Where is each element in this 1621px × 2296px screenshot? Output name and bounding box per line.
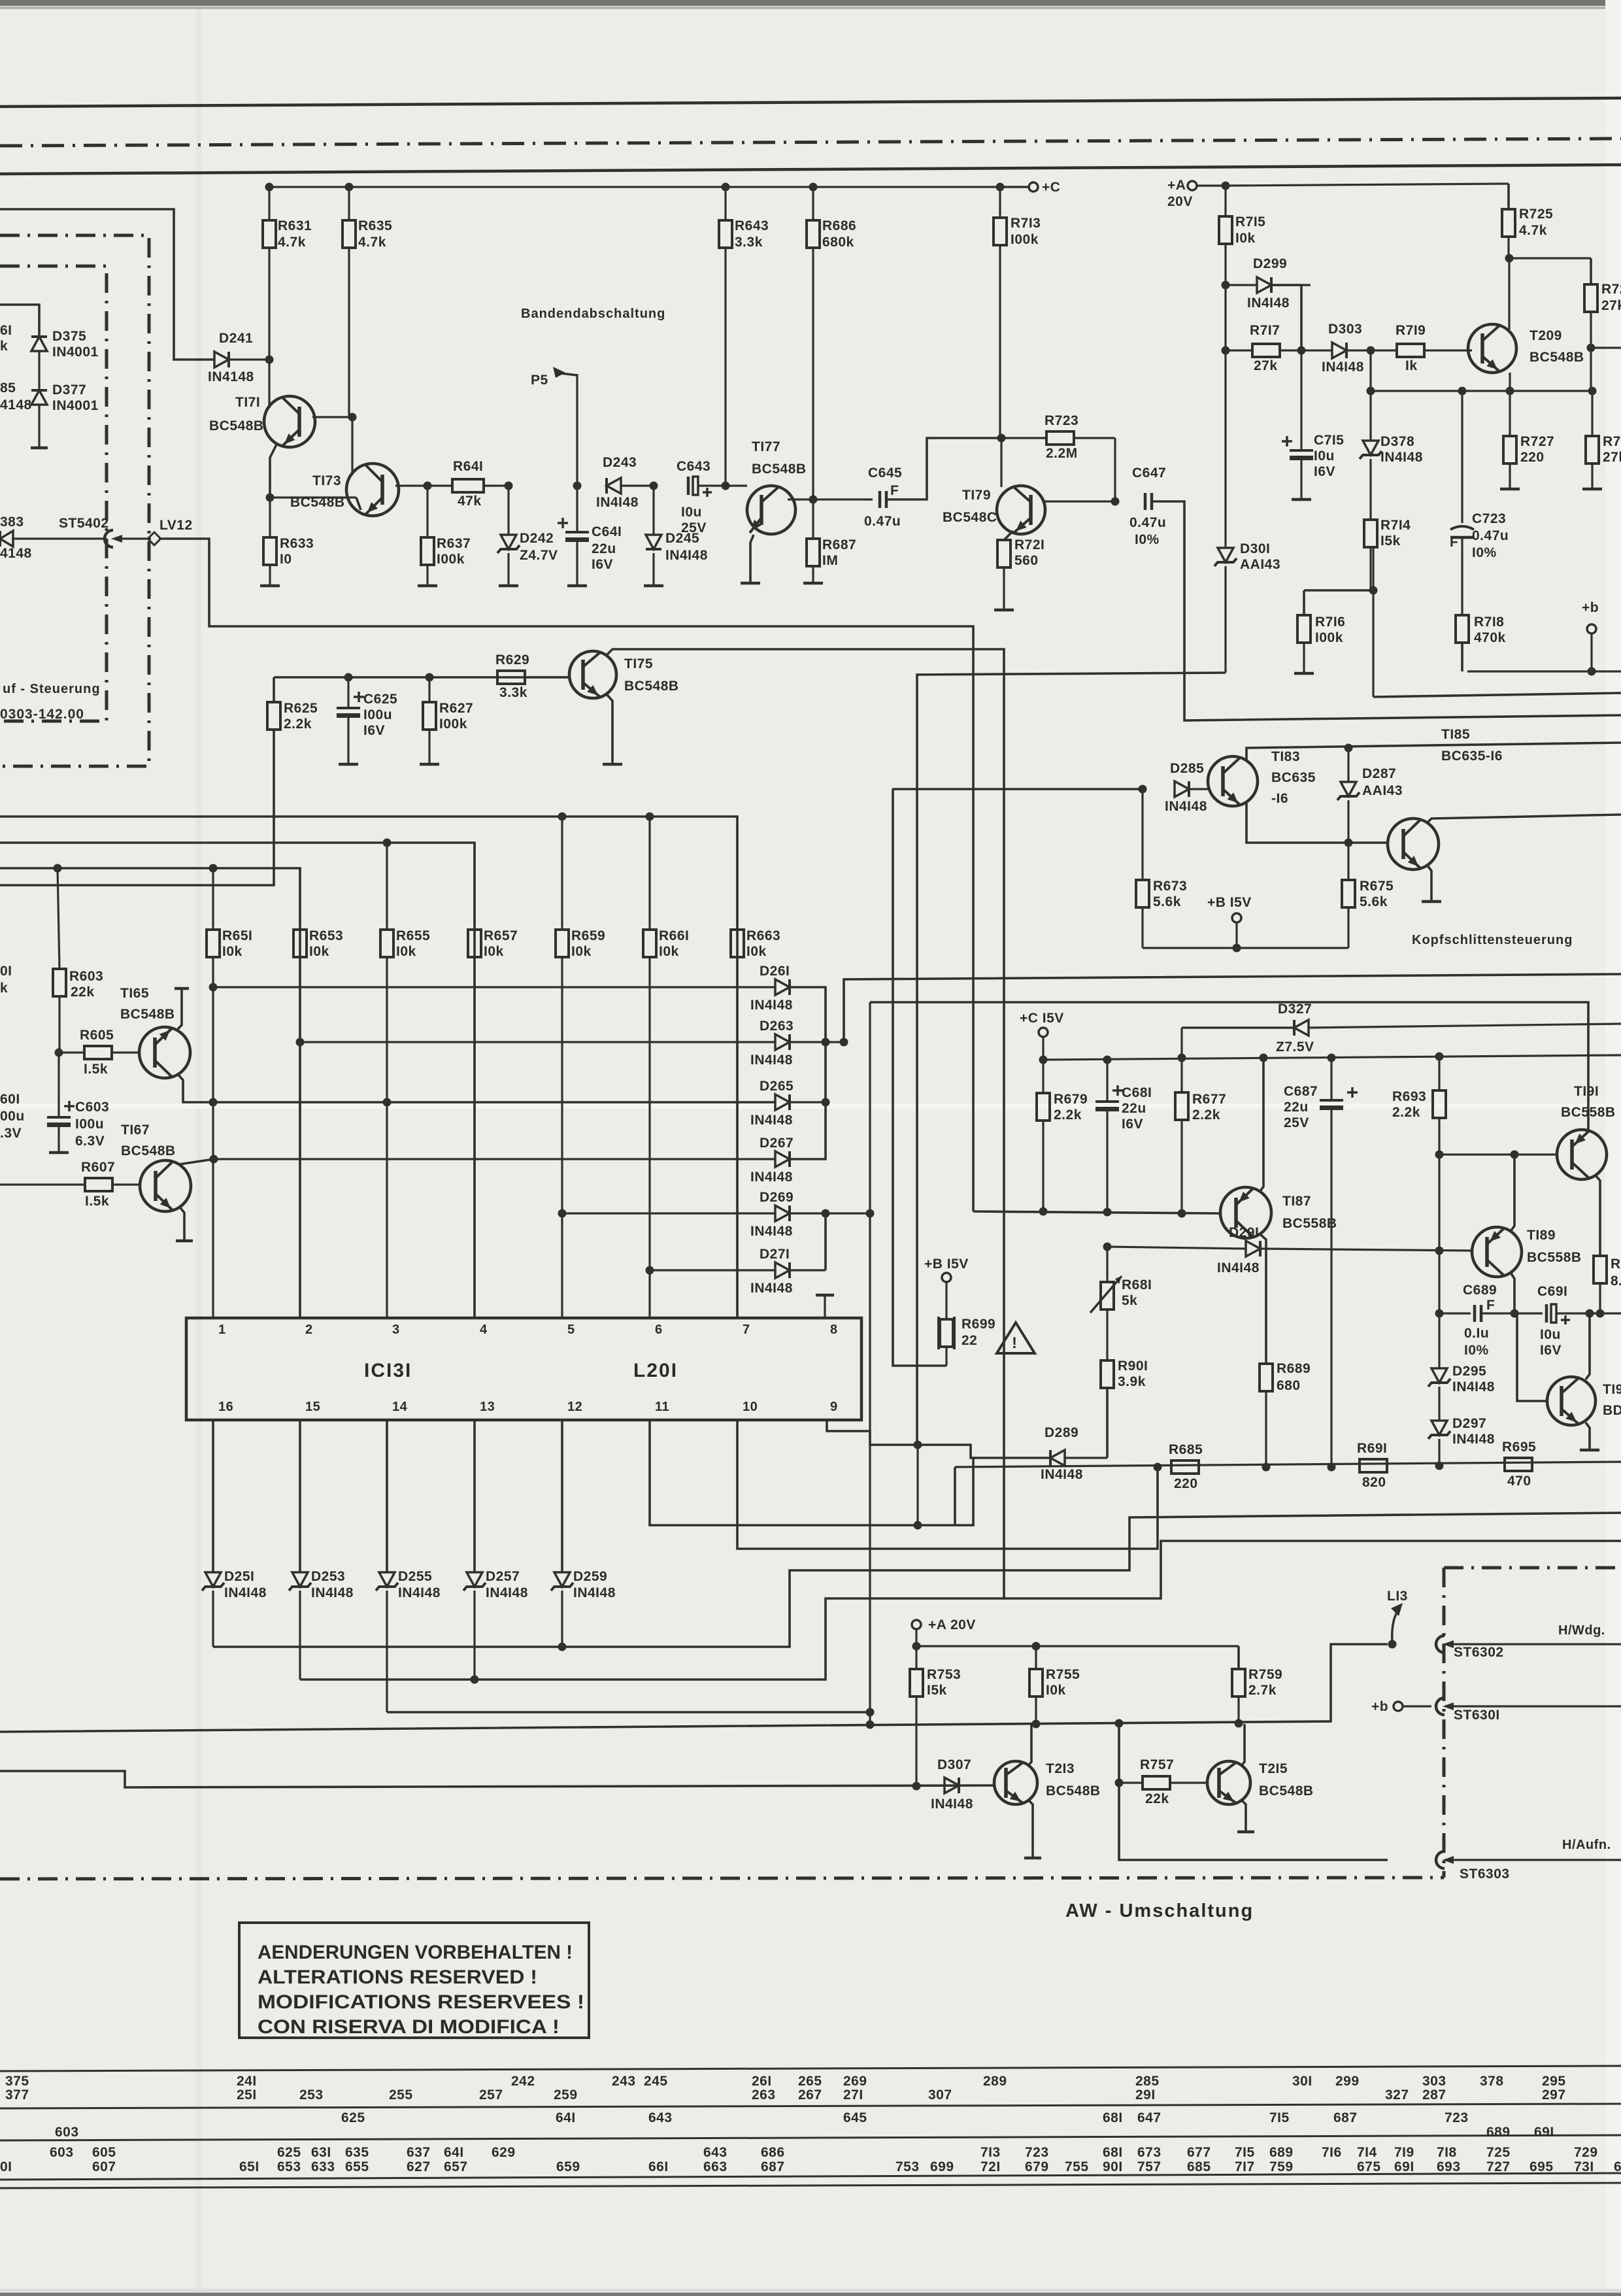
pin15 line [300,1591,1005,1684]
capacitor C625 100u 16V [337,673,397,765]
wire D285 line [892,788,1143,790]
svg-text:R753: R753 [927,1667,961,1682]
svg-text:D242: D242 [520,531,554,546]
svg-text:R7I3: R7I3 [1011,216,1041,231]
diode D297 IN4148 [1428,1387,1495,1467]
svg-text:IN4I48: IN4I48 [486,1585,528,1600]
svg-text:D377: D377 [52,382,86,397]
resistor R631 4.7k [263,187,312,408]
svg-text:D378: D378 [1380,434,1414,449]
bus wire C [0,868,300,1318]
bus C node R651 [209,864,218,873]
svg-text:289: 289 [983,2074,1007,2089]
label cut C601 [0,1092,25,1141]
emitter node row [1371,387,1592,396]
svg-text:R66I: R66I [659,928,689,943]
svg-text:TI9I: TI9I [1574,1084,1599,1099]
svg-text:I00k: I00k [439,717,467,732]
diode D257 IN4148 [463,1420,528,1600]
capacitor C647 0.47u 10% [1129,465,1166,547]
svg-text:686: 686 [761,2145,785,2160]
svg-text:0.47u: 0.47u [1472,528,1509,543]
node D287 base line [1345,839,1353,847]
svg-text:4: 4 [480,1323,488,1337]
left module outer dash-dot border [0,235,149,766]
pin 10 [743,1400,758,1414]
svg-text:680k: 680k [822,235,854,250]
connector ST6302 [1436,1636,1504,1660]
svg-text:2: 2 [305,1323,313,1337]
svg-text:R657: R657 [484,928,518,943]
svg-text:R685: R685 [1169,1442,1203,1457]
svg-text:679: 679 [1025,2159,1049,2174]
label L201 [633,1360,678,1381]
svg-text:10: 10 [743,1400,758,1414]
svg-text:I.5k: I.5k [84,1062,108,1077]
svg-text:BC548B: BC548B [1046,1783,1101,1798]
transistor T183 BC635-16 [1208,749,1316,806]
terminal +A 20V lower [912,1617,976,1651]
resistor R663 10k [731,817,780,1318]
svg-text:R727: R727 [1520,434,1554,449]
node R715 D299 [1222,281,1230,290]
svg-text:R679: R679 [1054,1092,1088,1107]
diode D267 IN4148 [750,1136,794,1185]
svg-text:R663: R663 [746,928,780,943]
wire T177 collector east [788,498,813,500]
svg-text:+C: +C [1042,180,1060,195]
svg-text:383: 383 [0,515,24,530]
pin 14 [392,1400,408,1414]
pin11 line [650,1420,922,1530]
node T165 row R651 [209,1098,218,1107]
svg-text:IN4I48: IN4I48 [1380,450,1423,465]
svg-text:D327: D327 [1278,1002,1312,1017]
svg-text:D25I: D25I [224,1569,254,1584]
transistor T193 BD135 [1547,1377,1621,1425]
ground bar T185 [1422,900,1441,903]
svg-text:0303-142.00: 0303-142.00 [0,707,84,722]
svg-text:72I: 72I [980,2159,1001,2174]
svg-text:657: 657 [444,2159,468,2174]
svg-text:757: 757 [1137,2159,1161,2174]
svg-text:R73: R73 [1603,434,1621,449]
svg-text:00u: 00u [0,1109,25,1124]
pin 8 stub [816,1295,834,1318]
ground bar R687 [803,582,823,585]
svg-text:3.9k: 3.9k [1118,1374,1146,1389]
resistor R695 470 [1502,1440,1536,1489]
svg-text:BC548B: BC548B [1259,1783,1314,1798]
svg-text:R72I: R72I [1014,537,1044,552]
svg-text:BDI3: BDI3 [1603,1403,1621,1418]
svg-text:673: 673 [1137,2145,1161,2160]
svg-text:R655: R655 [396,928,430,943]
wire T179 base from east [1044,500,1115,502]
table row C lower [0,2159,1621,2174]
svg-text:4148: 4148 [0,546,32,561]
label IC131 [364,1360,412,1381]
diode D295 IN4148 [1428,1313,1495,1394]
module dash-dot bottom [0,1878,1444,1879]
svg-text:I6V: I6V [592,557,613,572]
svg-text:D29I: D29I [1229,1225,1259,1240]
svg-text:+C I5V: +C I5V [1020,1011,1064,1026]
svg-text:723: 723 [1445,2110,1469,2125]
svg-text:IN4I48: IN4I48 [1452,1379,1495,1394]
svg-text:12: 12 [567,1400,582,1414]
diode D259 IN4148 [551,1420,616,1600]
svg-text:659: 659 [556,2159,580,2174]
svg-text:AAI43: AAI43 [1240,557,1280,572]
svg-text:Kopfschlittensteuerung: Kopfschlittensteuerung [1412,933,1573,947]
wire LV12 to lower rail [159,539,973,1211]
T193 emitter wire [1586,1423,1590,1450]
svg-text:TI93: TI93 [1603,1382,1621,1397]
link D269 D271 [790,1209,830,1271]
svg-text:TI85: TI85 [1441,727,1470,742]
svg-text:BC548B: BC548B [121,1143,176,1158]
svg-text:C689: C689 [1463,1283,1497,1298]
resistor R729 27k [1584,282,1621,348]
svg-text:29I: 29I [1135,2087,1156,2102]
resistor R625 2.2k [0,677,318,885]
svg-text:I00k: I00k [437,552,465,567]
svg-text:R69I: R69I [1357,1441,1387,1456]
svg-text:8.2: 8.2 [1611,1274,1621,1289]
svg-text:643: 643 [648,2110,673,2125]
resistor R637 100k [421,486,471,586]
svg-text:C64I: C64I [592,524,622,539]
resistor R603 22k [53,868,103,1053]
resistor R635 4.7k [343,187,392,417]
node D303 D378 [1367,346,1375,355]
svg-text:7: 7 [743,1323,750,1337]
link R673 R675 +B [1143,944,1348,953]
resistor R759 2.7k [1232,1646,1282,1722]
svg-text:680: 680 [1277,1378,1301,1393]
diode D241 IN4148 [208,331,269,384]
rail end bar below D377 [31,447,48,450]
ground bar C715 [1292,498,1311,501]
R685 line west link [954,1467,956,1525]
svg-text:H/Aufn.: H/Aufn. [1562,1838,1611,1852]
wire C643 to T177 base [698,484,747,486]
svg-text:5: 5 [567,1323,575,1337]
svg-text:6: 6 [655,1323,663,1337]
svg-text:R633: R633 [280,536,314,551]
svg-text:P5: P5 [531,373,548,388]
diode D299 IN4148 [1226,256,1311,311]
svg-text:C68I: C68I [1122,1085,1152,1100]
svg-text:625: 625 [341,2110,365,2125]
svg-text:633: 633 [311,2159,335,2174]
node D297 bottom [1435,1462,1444,1470]
svg-text:9: 9 [830,1400,838,1414]
svg-text:TI73: TI73 [312,473,341,488]
cut label R561 [0,323,12,354]
svg-text:.3V: .3V [0,1126,22,1141]
ground bar C625 [339,763,358,766]
diode D327 Z7.5V [1182,1002,1621,1055]
table line 4 [0,2173,1621,2180]
svg-text:637: 637 [407,2145,431,2160]
diode row D269 [558,1209,776,1218]
terminal +A 20V [1167,178,1230,209]
svg-text:11: 11 [655,1400,669,1414]
svg-text:D243: D243 [603,455,637,470]
transistor T187 BC558B [1220,1187,1337,1238]
svg-text:2.2k: 2.2k [284,717,312,732]
svg-text:C687: C687 [1284,1084,1318,1099]
node R673 top [1139,785,1147,794]
svg-text:723: 723 [1025,2145,1049,2160]
svg-text:15: 15 [305,1400,320,1414]
resistor R687 1M [807,499,856,583]
label Kopfschlittensteuerung [1412,933,1573,947]
ground bar R727 [1500,488,1520,491]
svg-text:1: 1 [218,1323,226,1337]
svg-text:7I6: 7I6 [1322,2145,1342,2160]
svg-text:63I: 63I [311,2145,331,2160]
transistor T171 BC548B [209,395,315,447]
svg-text:242: 242 [511,2074,535,2089]
node on rail at R631 [265,183,274,192]
resistor R675 5.6k [1342,843,1394,948]
svg-text:7I5: 7I5 [1235,2145,1255,2160]
svg-text:689: 689 [1486,2125,1511,2140]
resistor R719 1k [1371,323,1472,373]
svg-text:D269: D269 [760,1190,794,1205]
node R643 junction [722,482,730,490]
svg-text:377: 377 [5,2087,29,2102]
svg-text:R635: R635 [358,218,392,233]
svg-text:D253: D253 [311,1569,345,1584]
svg-text:R7I4: R7I4 [1380,518,1411,533]
svg-text:D263: D263 [760,1019,794,1034]
svg-text:IN4I48: IN4I48 [750,1053,793,1068]
node R677 base line [1178,1209,1186,1218]
svg-text:IN4I48: IN4I48 [596,495,639,510]
supply rail wire +C [269,186,1029,188]
pin 5 [567,1323,575,1337]
svg-text:R693: R693 [1392,1089,1426,1104]
resistor R677 2.2k [1175,1058,1226,1213]
svg-text:F: F [1486,1298,1495,1313]
svg-text:AENDERUNGEN VORBEHALTEN !: AENDERUNGEN VORBEHALTEN ! [258,1942,573,1963]
svg-text:BC548B: BC548B [1529,350,1584,365]
diode D301 AA143 [1214,541,1280,673]
svg-text:255: 255 [389,2087,413,2102]
T183 emitter wire [1246,803,1388,843]
transistor T185 BC635-16 [1388,727,1503,869]
svg-text:68I: 68I [1103,2145,1123,2160]
jog to R757 [1115,1719,1124,1783]
riser D269 to line 1533 [790,1002,1588,1218]
svg-text:R603: R603 [69,969,103,984]
svg-text:I0k: I0k [484,944,504,959]
svg-text:ALTERATIONS RESERVED !: ALTERATIONS RESERVED ! [258,1967,537,1988]
wire D299 east [1271,285,1301,346]
pin16 line [213,1513,1621,1651]
svg-text:IN4I48: IN4I48 [750,1281,793,1296]
resistor R721 560 [997,531,1044,610]
svg-text:R7I5: R7I5 [1235,214,1265,229]
svg-text:263: 263 [752,2087,776,2102]
pin 13 [480,1400,495,1414]
svg-text:R755: R755 [1046,1667,1080,1682]
svg-text:IN4I48: IN4I48 [1217,1260,1260,1275]
svg-text:22k: 22k [1145,1791,1169,1806]
R685 line [955,1462,1621,1467]
wire P5 to signal line [573,374,582,490]
test point P5 [531,367,577,388]
svg-text:IN4I48: IN4I48 [931,1797,973,1812]
svg-text:90I: 90I [1103,2159,1123,2174]
svg-text:27k: 27k [1254,358,1278,373]
T185 collector wire [1428,815,1621,822]
svg-text:677: 677 [1187,2145,1211,2160]
table row A upper [5,2074,1566,2089]
svg-text:I0k: I0k [659,944,679,959]
resistor R689 680 [1260,1361,1311,1467]
svg-text:BC548C: BC548C [943,510,997,525]
svg-text:267: 267 [798,2087,822,2102]
+A lower rail [916,1642,1239,1651]
svg-text:603: 603 [50,2145,74,2160]
wire H/Wdg [1448,1623,1621,1644]
resistor R718 470k [1456,615,1506,671]
svg-text:4.7k: 4.7k [358,235,386,250]
svg-text:22u: 22u [1122,1101,1146,1116]
svg-text:BC635: BC635 [1271,770,1316,785]
terminal +b right [1582,600,1599,676]
svg-text:30I: 30I [1292,2074,1312,2089]
diode D287 AA143 [1337,748,1403,843]
svg-text:D287: D287 [1362,766,1396,781]
svg-text:663: 663 [703,2159,727,2174]
table row B [341,2110,1469,2125]
svg-text:IN4I48: IN4I48 [573,1585,616,1600]
svg-text:2.2k: 2.2k [1392,1105,1420,1120]
resistor R715 10k [1219,186,1265,285]
label Bandendabschaltung [521,307,665,321]
svg-text:R627: R627 [439,701,473,716]
svg-text:Ik: Ik [1405,358,1418,373]
svg-text:IN4I48: IN4I48 [665,548,708,563]
svg-text:69I: 69I [1394,2159,1414,2174]
svg-text:R637: R637 [437,536,471,551]
svg-text:68I: 68I [1103,2110,1123,2125]
terminal +B 15V [1207,895,1252,948]
wire R625 rail [274,676,569,679]
svg-text:I0k: I0k [746,944,767,959]
svg-text:D289: D289 [1044,1425,1078,1440]
wire T173 base east [395,482,432,490]
svg-text:16: 16 [218,1400,233,1414]
svg-text:IN4I48: IN4I48 [750,998,793,1013]
resistor R627 100k [423,673,473,765]
diode D285 IN4148 [1165,761,1208,814]
svg-text:TI79: TI79 [962,488,991,503]
resistor R716 100k [1297,586,1378,674]
svg-text:T2I5: T2I5 [1259,1761,1288,1776]
svg-text:BC635-I6: BC635-I6 [1441,749,1503,764]
svg-text:299: 299 [1335,2074,1360,2089]
resistor R731 27k [1586,391,1621,489]
svg-text:727: 727 [1486,2159,1511,2174]
svg-text:T2I3: T2I3 [1046,1761,1075,1776]
wire R757 node to ST6303 [1119,1783,1388,1860]
node branch D242 [505,482,513,490]
wire R635 column to T173 collector [351,417,353,475]
svg-text:7I8: 7I8 [1437,2145,1457,2160]
svg-text:303: 303 [1422,2074,1446,2089]
svg-text:D295: D295 [1452,1364,1486,1379]
wire H/Aufn [1448,1838,1621,1860]
svg-text:5.6k: 5.6k [1153,894,1181,909]
svg-text:22k: 22k [71,985,95,1000]
svg-text:D257: D257 [486,1569,520,1584]
svg-text:R675: R675 [1360,879,1394,894]
svg-text:D299: D299 [1253,256,1287,271]
svg-text:BC548B: BC548B [624,679,679,694]
pin10 line [737,1420,1162,1549]
capacitor C691 10u 16V [1514,1284,1621,1358]
svg-text:ST630I: ST630I [1454,1708,1500,1723]
svg-text:C647: C647 [1132,465,1166,481]
svg-text:605: 605 [92,2145,116,2160]
svg-text:689: 689 [1269,2145,1294,2160]
svg-text:I0%: I0% [1472,545,1497,560]
wire D327 to +C rail [1178,1028,1186,1062]
resistor R691 820 [1357,1441,1387,1490]
resistor R607 1.5k [0,1160,141,1209]
base feed line R679 C681 [973,1211,1220,1213]
svg-text:C643: C643 [677,459,710,474]
svg-text:25V: 25V [681,520,707,535]
T187 collector wire down [1260,1234,1266,1364]
resistor R753 15k [910,1646,961,1786]
svg-text:627: 627 [407,2159,431,2174]
svg-text:D303: D303 [1328,322,1362,337]
svg-text:I00u: I00u [75,1117,104,1132]
svg-text:TI87: TI87 [1282,1194,1311,1209]
svg-text:13: 13 [480,1400,495,1414]
svg-text:3.3k: 3.3k [499,685,527,700]
svg-text:MODIFICATIONS RESERVEES !: MODIFICATIONS RESERVEES ! [258,1991,584,2013]
svg-text:+A 20V: +A 20V [928,1617,976,1632]
pin 1 [218,1323,226,1337]
svg-text:635: 635 [345,2145,369,2160]
svg-text:60I: 60I [0,1092,20,1107]
svg-text:k: k [0,339,8,354]
pin 16 [218,1400,233,1414]
diode D243 IN4148 [596,455,654,510]
svg-text:I0u: I0u [1540,1327,1561,1342]
svg-text:L20I: L20I [633,1360,678,1381]
svg-text:0.47u: 0.47u [864,514,901,529]
svg-text:7I9: 7I9 [1394,2145,1414,2160]
diode D245 IN4148 [646,486,708,586]
node R717 C715 [1297,346,1306,355]
svg-text:378: 378 [1480,2074,1504,2089]
ground bar T167 [176,1240,193,1243]
svg-text:I00k: I00k [1315,630,1343,645]
riser D263 to line 1498 [826,974,1621,1047]
cathode bus D261-D267 [790,987,830,1159]
svg-text:85: 85 [0,380,16,396]
